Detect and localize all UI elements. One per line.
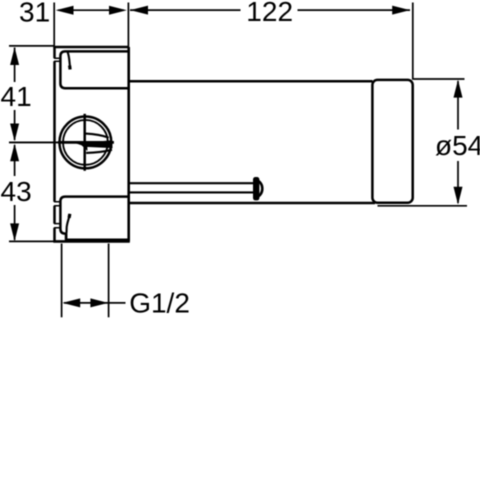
spindle pipe [129, 183, 254, 192]
dim o54: dimension line lower segment [457, 161, 459, 203]
screw slot bottom arc [86, 150, 112, 153]
dim 122: left arrow [130, 6, 148, 15]
valve screw outer circle [60, 116, 112, 168]
dim G1/2: left extension line [61, 244, 63, 318]
cylinder sleeve top edge [129, 80, 373, 83]
dim 41: up arrow [10, 47, 19, 65]
dim 122: right arrow [392, 6, 410, 15]
dim 31: dimension line [58, 9, 124, 11]
svg-text:43: 43 [1, 176, 32, 207]
horizontal centerline / 41-43 extension line [9, 141, 60, 143]
dim 31: right arrow [109, 6, 127, 15]
dim o54: dimension line upper segment [457, 81, 459, 130]
dim 41: dimension line lower segment [14, 110, 16, 140]
dim 43: dimension line upper segment [14, 145, 16, 176]
dim 122: dimension line left segment [130, 9, 241, 11]
dim 31: left arrow [56, 6, 74, 15]
bottom spring clip wire [67, 214, 71, 233]
top cartridge retainer (rounded rect) [60, 51, 128, 88]
dim o54: top extension line [414, 78, 465, 80]
dim 41/43: bottom extension line [9, 240, 55, 242]
dim G1/2: dimension line [64, 302, 126, 304]
dim 122: right extension line [412, 3, 414, 80]
dim G1/2: left arrow [62, 298, 80, 307]
dim 43: down arrow [10, 223, 19, 241]
svg-text:ø54: ø54 [435, 130, 480, 161]
vertical centerline of valve [83, 114, 86, 171]
screw slot lower triangle [80, 144, 88, 151]
spindle end cap [253, 177, 259, 200]
dim 122: dimension line right segment [298, 9, 411, 11]
dim 43: up arrow [10, 144, 19, 162]
cylinder sleeve bottom edge [129, 202, 375, 205]
dim 43: dimension line lower segment [14, 205, 16, 240]
svg-text:41: 41 [1, 81, 32, 112]
top spring clip wire [68, 52, 71, 69]
dim 41: down arrow [10, 124, 19, 142]
dim 31: right extension line (shared with 122) [127, 3, 129, 48]
dim G1/2: right extension line [108, 244, 110, 318]
clip window nubs top [54, 58, 60, 227]
svg-text:G1/2: G1/2 [129, 288, 190, 319]
svg-text:122: 122 [246, 0, 293, 27]
dim 31: left extension line [53, 3, 55, 47]
svg-text:31: 31 [19, 0, 50, 27]
valve body block outline [53, 46, 129, 243]
dim 41/43: top extension line [9, 45, 55, 47]
valve screw inner circle [63, 120, 108, 165]
dim o54: up arrow [454, 80, 463, 98]
screw slot wedge [76, 140, 113, 148]
bottom cartridge retainer with step [60, 197, 128, 240]
dim o54: bottom extension line [378, 205, 468, 207]
dim G1/2: right arrow [90, 298, 108, 307]
dim o54: down arrow [454, 187, 463, 205]
dim 41: dimension line upper segment [14, 48, 16, 83]
sleeve end cap [372, 80, 412, 203]
screw slot top arc [86, 134, 109, 138]
